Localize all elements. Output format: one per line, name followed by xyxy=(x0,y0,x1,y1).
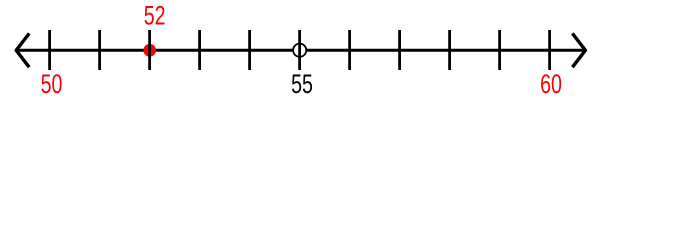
svg-text:55: 55 xyxy=(291,69,313,99)
left arrowhead xyxy=(16,33,29,67)
tick 56 xyxy=(348,30,351,70)
right arrowhead xyxy=(572,33,585,67)
tick 59 xyxy=(498,30,501,70)
tick 51 xyxy=(98,30,101,70)
svg-text:60: 60 xyxy=(540,69,562,99)
svg-text:50: 50 xyxy=(41,69,63,99)
tick 53 xyxy=(198,30,201,70)
open circle at 55 xyxy=(293,44,306,57)
number line axis xyxy=(15,49,586,52)
filled red point at 52 xyxy=(143,44,156,57)
tick 50 xyxy=(48,30,51,70)
tick 52 xyxy=(148,30,151,70)
tick 60 xyxy=(548,30,551,70)
tick 58 xyxy=(448,30,451,70)
tick 57 xyxy=(398,30,401,70)
svg-text:52: 52 xyxy=(144,0,166,30)
tick 54 xyxy=(248,30,251,70)
tick 55 xyxy=(298,30,301,70)
